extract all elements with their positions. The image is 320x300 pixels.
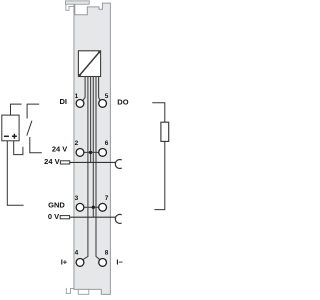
svg-text:I+: I+: [61, 258, 68, 267]
svg-text:4: 4: [75, 249, 79, 256]
svg-text:24 V: 24 V: [52, 145, 67, 154]
svg-text:2: 2: [75, 140, 79, 147]
svg-text:7: 7: [105, 195, 109, 202]
wire row3 link: [84, 206, 99, 208]
wire L1 to terminal 1: [83, 77, 85, 101]
wire row2 link: [84, 151, 99, 153]
power supply G1: [2, 115, 19, 141]
wire load top: [152, 103, 165, 122]
0V power jumper blade: [60, 216, 69, 219]
module body outline: [74, 3, 110, 294]
terminal 8: [99, 259, 107, 267]
wire 0V rail: [70, 216, 116, 218]
module top-left rail hook: [66, 4, 74, 10]
24V jumper contact: [115, 159, 121, 168]
svg-text:DI: DI: [60, 97, 68, 106]
module top plate: [66, 1, 90, 4]
terminal 5: [99, 100, 107, 108]
wire L4 to 0V rail: [92, 77, 94, 218]
svg-text:I−: I−: [116, 258, 123, 267]
filter diagonal: [80, 52, 100, 76]
wire L3 to 24V rail: [90, 77, 92, 163]
load resistor R1: [161, 122, 169, 141]
polarity minus: [4, 135, 9, 137]
24V power jumper blade: [60, 161, 69, 164]
svg-text:DO: DO: [117, 98, 128, 107]
0V jumper contact: [115, 214, 121, 223]
module bottom-left rail hook: [66, 288, 74, 294]
wire L2 to terminal 4: [83, 77, 88, 260]
wire 24V rail: [70, 161, 116, 163]
switch S1 blade: [27, 121, 32, 136]
wire load bottom: [154, 142, 164, 210]
terminal 2: [76, 149, 84, 157]
terminal 6: [99, 149, 107, 157]
svg-text:5: 5: [105, 93, 109, 100]
switch S1 top contact: [27, 104, 39, 118]
filter block U1: [78, 51, 100, 77]
wire supply plus lead: [14, 141, 23, 155]
terminal 7: [99, 203, 107, 211]
wire L6 to terminal 5: [99, 77, 101, 101]
wire supply minus lead: [7, 141, 23, 205]
wire L5 to terminal 8: [96, 77, 100, 260]
svg-text:3: 3: [75, 195, 79, 202]
polarity plus: [12, 134, 17, 139]
svg-text:GND: GND: [48, 201, 65, 210]
svg-text:1: 1: [75, 93, 79, 100]
terminal 1: [76, 100, 84, 108]
svg-text:6: 6: [105, 140, 109, 147]
junction row2: [89, 151, 92, 154]
svg-text:24 V: 24 V: [44, 157, 59, 166]
wire switch bottom: [30, 137, 42, 153]
terminal 3: [76, 203, 84, 211]
module bottom foot: [78, 289, 89, 294]
svg-text:8: 8: [105, 249, 109, 256]
wire supply top: [11, 104, 22, 115]
terminal 4: [76, 259, 84, 267]
svg-text:0 V: 0 V: [48, 212, 59, 221]
junction row3: [92, 206, 95, 209]
